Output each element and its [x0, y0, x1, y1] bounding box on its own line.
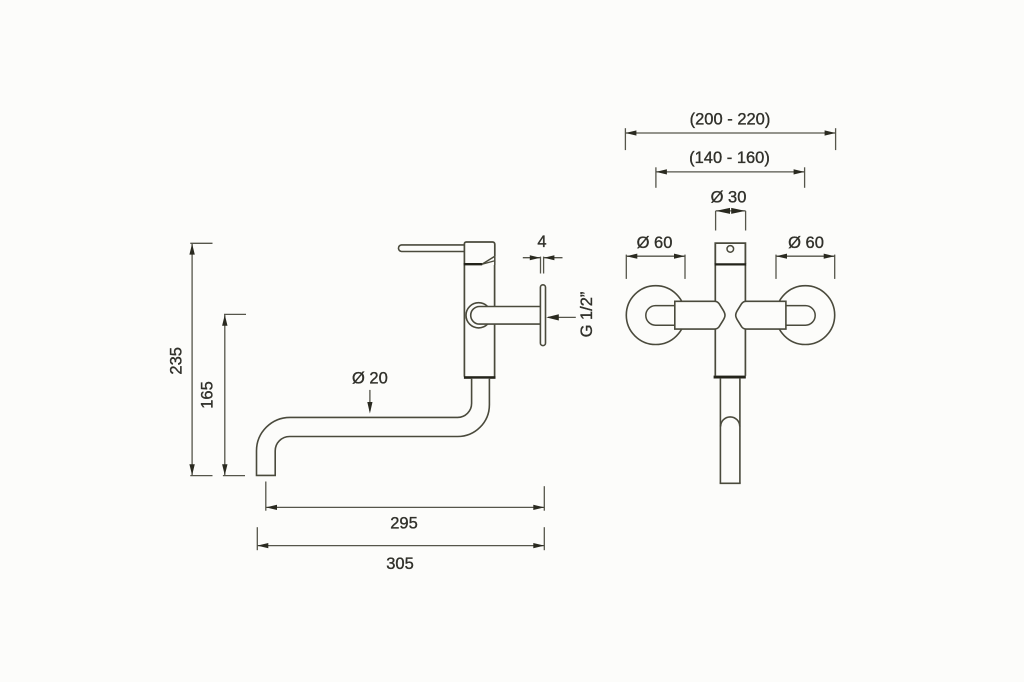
svg-text:165: 165 — [199, 381, 217, 409]
dim 4 arrows — [523, 257, 563, 274]
spout bend arc seen from front — [721, 417, 740, 427]
dim (200-220) right tick — [835, 128, 837, 150]
fixing screw — [727, 246, 734, 253]
faucet body side: left and right vertical edges — [464, 265, 494, 377]
svg-text:Ø 20: Ø 20 — [352, 369, 388, 387]
bottom outlet tube front — [720, 379, 741, 484]
dim 235 vertical line — [190, 243, 212, 475]
svg-text:(200 - 220): (200 - 220) — [690, 110, 771, 128]
dim 235 bottom tick — [190, 475, 212, 477]
dim 235 top tick — [190, 242, 212, 244]
dim 295 right tick — [543, 486, 545, 511]
svg-text:(140 - 160): (140 - 160) — [689, 149, 770, 167]
svg-text:235: 235 — [168, 347, 186, 375]
dim (140-160) right tick — [804, 167, 806, 188]
svg-text:4: 4 — [537, 233, 546, 251]
dim Ø60 right ticks — [775, 255, 777, 279]
dim 165 top tick — [224, 313, 246, 315]
dim Ø20 leader arrow — [369, 390, 371, 411]
dim 305 left tick — [256, 527, 258, 550]
dim (140-160) left tick — [655, 167, 657, 188]
cap joint dark line front — [715, 263, 747, 265]
cap right lower edge — [494, 256, 496, 265]
dim 165 vertical line — [223, 314, 246, 475]
dim 305 arrowheads — [257, 543, 544, 548]
left handle stadium slot — [646, 306, 676, 326]
dim Ø30 arrowheads — [716, 208, 746, 214]
faucet body front: vertical edges — [715, 265, 745, 376]
wall flange plate — [540, 285, 545, 346]
svg-text:Ø 30: Ø 30 — [711, 188, 747, 206]
dim Ø60 left line — [626, 255, 685, 279]
left arm (bullet toward body) — [675, 301, 725, 329]
dim (200-220) line — [625, 128, 835, 150]
svg-text:305: 305 — [386, 555, 414, 573]
left wall flange circle — [626, 286, 685, 345]
wall union escutcheon circle — [466, 303, 491, 328]
dim 165 bottom tick — [223, 475, 245, 477]
svg-text:G 1/2”: G 1/2” — [578, 292, 596, 338]
body bottom dark base band — [464, 376, 496, 379]
lever handle rod — [398, 245, 465, 252]
dim Ø60 left arrowheads — [626, 254, 685, 259]
dim Ø30 extension lines — [715, 211, 717, 231]
dim Ø60 right line — [776, 255, 835, 279]
cap slant edge B — [482, 261, 495, 264]
cap bottom dark joint line — [464, 263, 483, 265]
dim 165 arrowheads — [222, 315, 227, 476]
svg-text:Ø 60: Ø 60 — [788, 234, 824, 252]
spout tube (S-shape) — [257, 379, 490, 476]
right arm (bullet toward body) — [736, 301, 786, 329]
dim Ø60 left ticks — [625, 255, 627, 279]
dim (140-160) arrowheads — [656, 169, 805, 174]
dim 295 line — [266, 482, 545, 511]
right wall flange circle — [776, 286, 835, 345]
dim 295 left extension — [265, 482, 267, 511]
cap slant edge A — [482, 256, 495, 264]
dim 305 right tick — [543, 527, 545, 550]
svg-text:295: 295 — [390, 514, 418, 532]
dim 295 arrowheads — [266, 505, 544, 510]
dim 235 arrowheads — [189, 244, 194, 476]
dim 4 extension lines — [540, 257, 542, 274]
inlet pipe to wall (white fill over circle) — [471, 307, 541, 325]
dim (200-220) left tick — [624, 128, 626, 150]
dim Ø30 line — [716, 211, 746, 231]
dim (200-220) arrowheads — [625, 130, 835, 135]
body top cap front — [715, 243, 745, 264]
dim 305 line — [257, 527, 544, 550]
svg-text:Ø 60: Ø 60 — [637, 234, 673, 252]
body base dark band front — [714, 376, 746, 379]
dim Ø60 right arrowheads — [776, 254, 835, 259]
lever cap (handle base) — [464, 242, 494, 264]
G 1/2 arrow — [548, 316, 576, 318]
dim (140-160) line — [656, 167, 805, 188]
right handle stadium slot — [785, 306, 815, 326]
